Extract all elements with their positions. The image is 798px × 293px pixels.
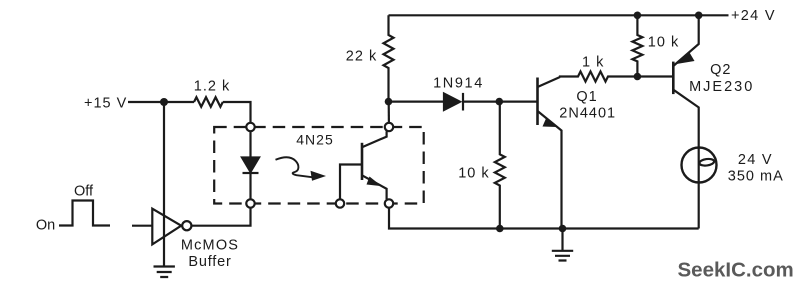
transistor Q1 emitter arrow [543, 119, 557, 128]
op-amp U1 McMOS buffer triangle [152, 209, 181, 245]
wire +15 V lead to resistor [128, 101, 194, 103]
svg-text:1 k: 1 k [582, 55, 604, 71]
junction dot 22k and diode [385, 98, 393, 106]
svg-text:McMOS: McMOS [181, 238, 239, 254]
svg-text:+24 V: +24 V [731, 8, 776, 24]
wire buffer input [132, 225, 152, 227]
svg-text:1.2 k: 1.2 k [194, 79, 230, 95]
wire 22k node to diode anode [389, 100, 445, 102]
diode D1 1N914 triangle [444, 94, 460, 111]
svg-text:24 V: 24 V [738, 152, 773, 168]
buffer output inversion bubble [182, 221, 191, 230]
transistor Q1 base bar [536, 78, 539, 126]
svg-text:Q2: Q2 [710, 62, 731, 78]
phototransistor base lead to pin [340, 165, 362, 200]
resistor R2 22 k [384, 15, 394, 101]
resistor R3 10 k base pulldown [495, 102, 505, 229]
phototransistor emitter arrow [367, 177, 382, 187]
junction dot Q2 emitter on rail [695, 12, 703, 20]
lamp wire through [698, 147, 700, 228]
pin terminal phototransistor collector [385, 123, 393, 131]
svg-text:SeekIC.com: SeekIC.com [678, 259, 794, 282]
svg-text:10 k: 10 k [648, 35, 679, 51]
svg-text:Buffer: Buffer [188, 254, 231, 270]
wire 1.2 k to 4N25 LED anode [223, 102, 251, 123]
svg-text:Q1: Q1 [576, 89, 597, 105]
junction dot +15 V node [160, 98, 168, 106]
svg-text:1N914: 1N914 [433, 76, 484, 92]
LED inside 4N25 anode wire [249, 131, 251, 157]
optocoupler U2 4N25 dashed package outline [214, 127, 424, 204]
lamp filament loop [699, 158, 715, 166]
transistor Q2 emitter lead [673, 15, 698, 66]
LED triangle [242, 158, 259, 172]
pin terminal phototransistor base [336, 199, 344, 207]
transistor Q2 collector lead [673, 90, 698, 148]
bottom ground rail [389, 208, 699, 229]
svg-text:4N25: 4N25 [296, 132, 333, 148]
LED cathode bar [243, 172, 259, 174]
phototransistor base bar [361, 143, 364, 180]
+24 V top rail [389, 14, 729, 16]
input pulse waveform [59, 201, 110, 226]
light coupling arrow [276, 157, 313, 177]
wire buffer output to LED cathode terminal [191, 208, 250, 226]
junction dot Q1 emitter ground [559, 225, 567, 233]
transistor Q1 collector lead [538, 77, 561, 87]
transistor Q2 emitter arrow (PNP) [677, 53, 695, 65]
svg-text:22 k: 22 k [346, 49, 377, 65]
svg-text:On: On [36, 218, 55, 234]
LED cathode wire [249, 173, 251, 199]
resistor R4 1 k [560, 72, 637, 82]
transistor Q1 emitter lead [538, 111, 562, 229]
ground symbol at Q1 emitter [552, 229, 573, 261]
svg-text:2N4401: 2N4401 [559, 106, 616, 122]
resistor R1 1.2 k [194, 97, 223, 107]
wire +15 V down through buffer to ground [163, 102, 165, 267]
svg-text:+15 V: +15 V [84, 96, 127, 112]
junction dot 10k top on rail [634, 12, 642, 20]
lamp load circle [682, 148, 717, 183]
wire 22k node down to phototransistor collector pin [388, 102, 390, 123]
phototransistor collector lead [362, 131, 387, 147]
pin terminal phototransistor emitter [385, 199, 393, 207]
ground symbol below buffer [154, 267, 175, 278]
svg-text:Off: Off [74, 184, 94, 200]
diode cathode bar [462, 93, 464, 111]
svg-text:350 mA: 350 mA [728, 169, 784, 185]
svg-text:MJE230: MJE230 [689, 79, 754, 95]
junction dot 10k bottom on rail [496, 225, 504, 233]
pin terminal LED anode [246, 123, 254, 131]
junction dot diode, 10k, Q1 base [496, 98, 504, 106]
svg-text:10 k: 10 k [458, 166, 489, 182]
wire Q2 base [637, 75, 673, 77]
phototransistor emitter lead [362, 175, 387, 199]
wire diode cathode to Q1 base node [463, 100, 538, 102]
resistor R5 10 k Q2 base [632, 15, 642, 76]
transistor Q2 base bar [672, 62, 675, 95]
junction dot 1k, 10k, Q2 base [634, 73, 642, 81]
pin terminal LED cathode [246, 199, 254, 207]
